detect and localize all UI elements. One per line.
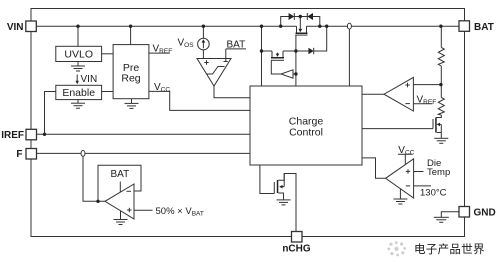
transistor Q1 main pass FET <box>295 17 307 36</box>
pin IREF <box>26 129 37 140</box>
wire rail-to-box riser <box>261 26 263 86</box>
block UVLO <box>56 46 102 61</box>
current source Vos <box>198 38 210 50</box>
wire D3 to rail riser <box>314 26 327 51</box>
ground at GND pin <box>434 217 449 222</box>
op-amp U1 Vos comparator <box>197 59 231 87</box>
op-amp U3 voltage comparator <box>384 77 413 111</box>
pin GND <box>459 207 470 218</box>
wire hop to Charge Control top <box>348 29 350 86</box>
transistor Q3 <box>433 118 441 139</box>
transistor Q4 nCHG driver <box>274 180 284 194</box>
wire F line left <box>37 152 81 154</box>
pin VIN <box>26 21 37 32</box>
wire Vos riser <box>202 26 204 38</box>
node VREF stub at U3 <box>413 103 432 105</box>
wire Q3 gate to Charge Control <box>362 128 433 130</box>
block Enable <box>56 85 102 99</box>
svg-text:IREF: IREF <box>1 130 24 141</box>
wire Q4 gate from box <box>260 165 274 194</box>
wire VIN rail left <box>36 25 296 27</box>
node VCC label stub <box>398 154 412 164</box>
transistor Q2 mirror FET <box>271 51 284 60</box>
resistor R1 <box>438 48 444 67</box>
wire Q4 bulk tie <box>283 174 285 187</box>
svg-text:F: F <box>16 149 22 160</box>
ground below Enable <box>71 100 85 109</box>
junction hop on F line <box>81 151 85 157</box>
node VREF output stub <box>149 52 170 54</box>
svg-text:Control: Control <box>289 127 323 139</box>
svg-text:130°C: 130°C <box>420 188 447 199</box>
wire GND pin to ground <box>441 212 459 218</box>
ground below Q3 <box>434 138 448 143</box>
svg-text:UVLO: UVLO <box>64 49 93 61</box>
wire VCC to Charge Control <box>149 91 250 110</box>
wire PreReg riser <box>130 26 132 44</box>
wire U4 minus input <box>414 185 431 187</box>
ground below Pre Reg <box>125 99 139 109</box>
ground below Q4 <box>277 200 291 205</box>
wire comparator U3 output <box>362 93 384 95</box>
wire U5 plus input <box>134 209 153 211</box>
wire Enable to PreReg <box>102 91 114 93</box>
svg-text:VIN: VIN <box>7 22 24 33</box>
wire U5 feedback loop <box>98 165 141 201</box>
pin nCHG <box>292 232 303 243</box>
wire Q4 drain to nCHG pin <box>278 174 296 232</box>
svg-text:VIN: VIN <box>81 74 98 85</box>
label VIN arrow at Enable <box>76 74 98 85</box>
ground below U4 <box>393 189 407 204</box>
wire IREF line <box>37 133 251 135</box>
junction hop on rail <box>347 23 351 29</box>
wire F hop to BAT comparator output <box>83 157 105 202</box>
wire Q4 source <box>278 193 283 200</box>
wire BAT rail to R1 <box>440 26 442 47</box>
svg-text:BAT: BAT <box>227 40 246 51</box>
diode D1 <box>289 13 295 20</box>
op-amp U4 Die Temp comparator <box>386 159 414 198</box>
transistor Q1 body diode row <box>281 17 320 27</box>
IC boundary <box>31 9 465 237</box>
svg-text:Enable: Enable <box>62 87 95 99</box>
block Charge Control <box>250 86 362 165</box>
watermark logo <box>387 241 406 256</box>
svg-text:nCHG: nCHG <box>282 244 311 255</box>
pin BAT <box>459 21 470 32</box>
ground below U5 <box>114 211 128 225</box>
wire Die Temp comparator output <box>362 158 386 178</box>
wire UVLO riser <box>77 26 79 46</box>
wire Q1 gate down to box <box>295 35 297 86</box>
wire Q2 branch <box>262 50 273 52</box>
ground below UVLO <box>71 62 85 72</box>
wire D3 branch <box>296 50 309 52</box>
wire R1 to node <box>440 66 442 98</box>
wire Q2 gate from buffer <box>271 60 281 74</box>
svg-text:BAT: BAT <box>111 169 130 180</box>
op-amp U5 BAT comparator <box>105 184 134 219</box>
wire U1 output to Charge Control <box>214 86 250 98</box>
svg-text:Temp: Temp <box>427 167 450 178</box>
wire Vos source to comparator <box>202 50 204 59</box>
buffer U2 <box>281 70 293 78</box>
node BAT label stub (U5) <box>119 182 121 193</box>
block Pre Reg <box>113 45 149 99</box>
svg-text:电子产品世界: 电子产品世界 <box>414 242 485 256</box>
wire F line right <box>85 152 250 154</box>
diode D2 <box>307 13 313 20</box>
diode D3 <box>308 48 313 54</box>
svg-text:Reg: Reg <box>121 73 140 85</box>
wire U3 plus input to divider <box>413 84 441 86</box>
node BAT label stub (top) <box>226 49 246 59</box>
resistor R2 <box>438 98 444 116</box>
wire Enable to IREF line <box>45 92 56 135</box>
wire U4 plus input <box>414 171 424 173</box>
wire VIN rail right <box>307 25 460 27</box>
svg-text:GND: GND <box>474 208 496 219</box>
pin F <box>26 149 37 160</box>
wire UVLO to PreReg <box>102 53 114 55</box>
wire buffer input <box>293 73 296 75</box>
svg-text:BAT: BAT <box>474 22 494 33</box>
wire R2 to Q3 <box>436 115 441 118</box>
